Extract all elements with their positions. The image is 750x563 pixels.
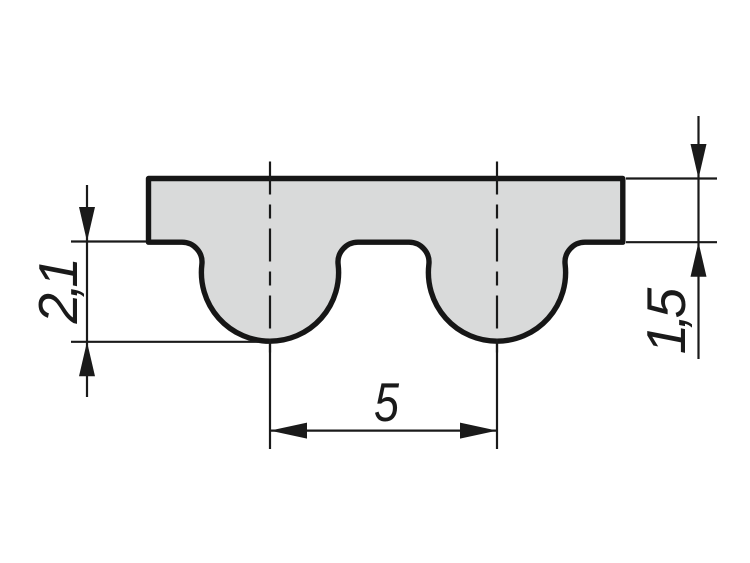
centerline right tooth [496, 162, 498, 359]
dimension 2,1 arrow bottom [79, 342, 95, 377]
dimension 5 dimension line [270, 430, 497, 432]
dimension 5 arrow left [270, 423, 307, 439]
dimension 1,5 extension line top [626, 177, 717, 179]
dimension 2,1 dimension line [86, 185, 88, 397]
svg-text:2,1: 2,1 [27, 262, 89, 325]
dimension 1,5 arrow bottom [691, 242, 707, 277]
dimension 5 arrow right [460, 423, 497, 439]
dimension 1,5 dimension line [697, 116, 699, 359]
centerline left tooth [269, 162, 271, 359]
belt profile body [149, 179, 623, 342]
svg-text:1,5: 1,5 [635, 287, 697, 354]
dimension 5 extension line right [496, 344, 498, 449]
svg-text:5: 5 [374, 371, 399, 433]
dimension 1,5 arrow top [691, 144, 707, 179]
dimension 2,1 extension line bottom [71, 341, 258, 343]
dimension 5 extension line left [269, 344, 271, 449]
dimension 1,5 extension line bottom [626, 241, 717, 243]
dimension 2,1 extension line top [71, 240, 146, 242]
dimension 2,1 arrow top [79, 207, 95, 242]
